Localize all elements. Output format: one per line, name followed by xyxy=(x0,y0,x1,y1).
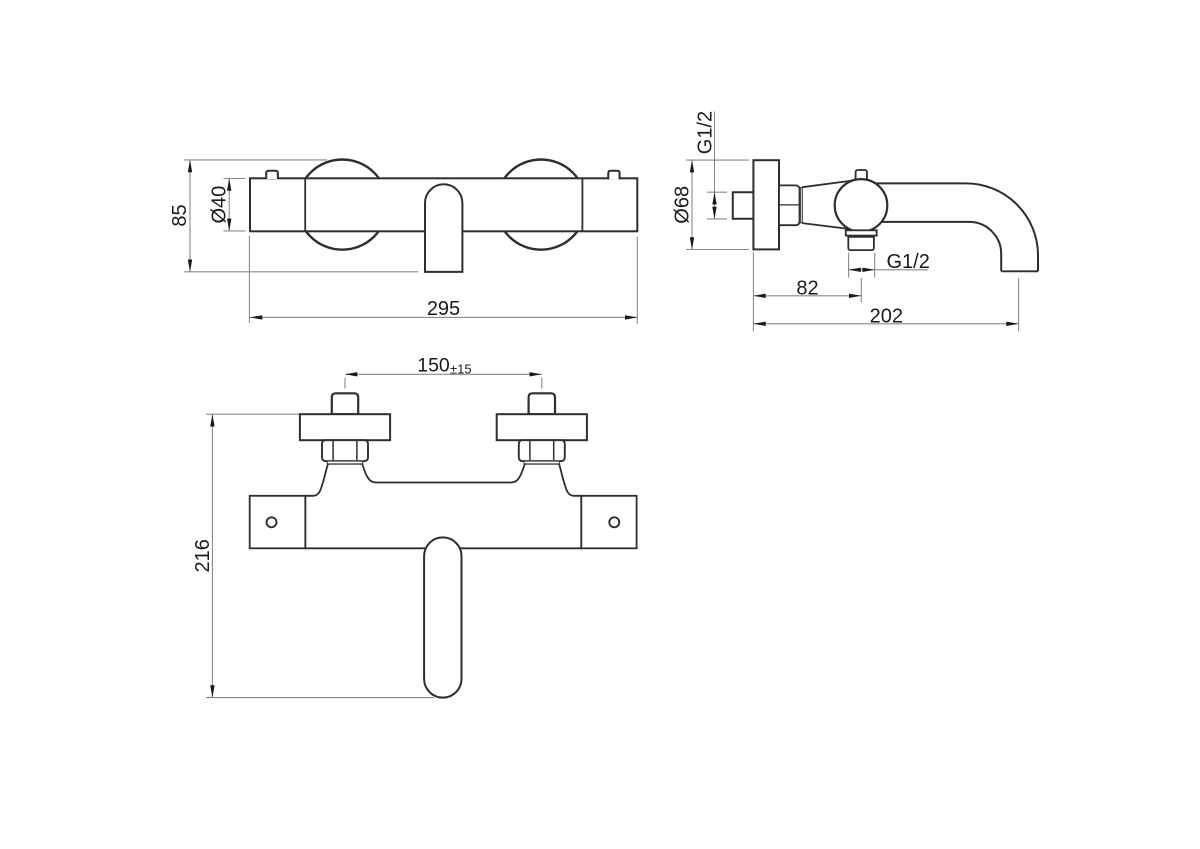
extension line 85 bottom xyxy=(184,271,418,273)
dimension line 85 xyxy=(189,160,191,272)
right connector square xyxy=(529,393,555,414)
dimension line 295 xyxy=(250,316,637,318)
extension line G1/2 outlet left xyxy=(848,253,850,278)
svg-text:295: 295 xyxy=(427,298,460,320)
outlet nut (side) xyxy=(848,237,874,250)
svg-text:G1/2: G1/2 xyxy=(695,111,717,154)
dimension line Ø68 xyxy=(691,160,693,249)
leader + dimension line G1/2 inlet xyxy=(714,112,716,219)
handle left (circle) xyxy=(297,160,387,250)
left hex nut chamfer lines xyxy=(332,441,334,461)
wall plate right xyxy=(581,496,636,549)
extension line G1/2 inlet bottom xyxy=(707,218,727,220)
dimension line 216 xyxy=(211,414,213,697)
extension line 216 top xyxy=(206,413,299,415)
outlet ring (side) xyxy=(846,230,877,235)
svg-text:Ø40: Ø40 xyxy=(209,186,231,224)
extension line 82 right xyxy=(860,278,862,302)
left hex nut xyxy=(322,440,368,461)
handle right (circle) xyxy=(496,160,586,250)
left eccentric plate xyxy=(300,414,390,440)
dimension line 150 xyxy=(345,373,542,375)
spout (front view) xyxy=(425,184,462,272)
wall flange (side) xyxy=(753,160,779,249)
body cap separator left xyxy=(304,178,306,231)
extension line Ø68 bottom xyxy=(686,249,749,251)
spout tube top outline (side) xyxy=(875,183,1038,271)
screw nub left xyxy=(266,171,278,179)
right hex nut xyxy=(519,440,565,461)
extension line Ø40 bottom xyxy=(224,230,246,232)
extension line G1/2 outlet right xyxy=(874,253,876,278)
spout (bottom view) xyxy=(424,537,461,697)
svg-text:82: 82 xyxy=(796,277,818,299)
taper cone bottom line xyxy=(802,223,849,229)
hex nut middle line xyxy=(779,204,800,206)
dimension line Ø40 xyxy=(228,179,230,231)
right collar xyxy=(524,461,559,464)
spout mouth line (side) xyxy=(1001,270,1038,272)
svg-text:G1/2: G1/2 xyxy=(887,251,930,273)
right eccentric plate xyxy=(497,414,587,440)
body bar with arms xyxy=(305,464,581,549)
extension line 295 right xyxy=(636,237,638,324)
extension line 85 top xyxy=(184,159,327,161)
spout tube bottom outline (side) xyxy=(876,222,1001,271)
screw nub right xyxy=(608,171,619,180)
extension line Ø40 top xyxy=(224,178,246,180)
extension line 295 left xyxy=(248,236,250,323)
svg-text:85: 85 xyxy=(169,204,191,226)
dimension line 202 xyxy=(753,323,1018,325)
extension line 216 bottom xyxy=(206,697,434,699)
knob circle (side) xyxy=(835,179,888,232)
taper cone top line xyxy=(802,181,853,188)
extension line G1/2 inlet top xyxy=(707,191,727,193)
svg-text:Ø68: Ø68 xyxy=(671,186,693,224)
dimension line 82 xyxy=(753,295,861,297)
svg-text:202: 202 xyxy=(870,305,903,327)
inlet pipe (side) xyxy=(733,192,754,219)
right hex nut chamfer lines xyxy=(529,441,531,461)
left connector square xyxy=(332,393,358,414)
svg-text:216: 216 xyxy=(192,539,214,572)
extension line Ø68 top xyxy=(686,159,749,161)
extension line 150 left xyxy=(344,378,346,389)
extension line 202 right xyxy=(1018,278,1020,331)
wall plate left xyxy=(250,496,306,549)
collar (side) xyxy=(800,188,802,223)
screw hole right xyxy=(609,517,619,527)
extension line 202 left xyxy=(752,253,754,332)
hex nut (side) xyxy=(779,185,800,225)
body cap separator right xyxy=(581,178,583,231)
screw hole left xyxy=(267,517,277,527)
knob nub (side) xyxy=(856,170,867,179)
dimension line G1/2 outlet with leader xyxy=(849,269,928,271)
svg-text:150: 150 xyxy=(417,354,450,376)
extension line 150 right xyxy=(541,378,543,389)
left collar xyxy=(327,461,362,464)
body (front) xyxy=(250,178,637,231)
svg-text:±15: ±15 xyxy=(450,362,472,377)
